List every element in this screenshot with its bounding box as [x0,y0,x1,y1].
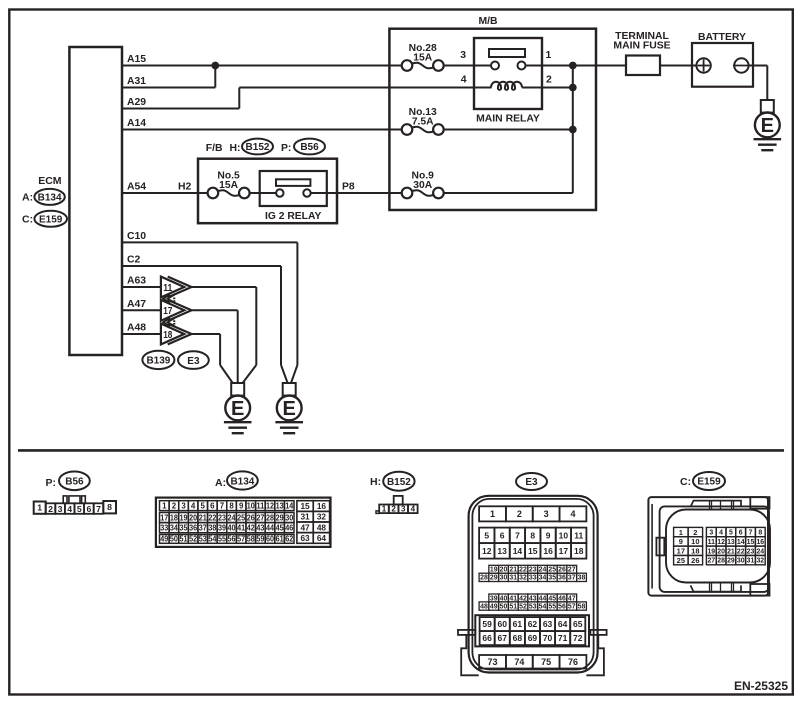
svg-text:2: 2 [391,504,396,513]
svg-text:40: 40 [228,523,237,532]
svg-text:24: 24 [539,567,547,574]
svg-text:72: 72 [573,633,583,643]
svg-text:MAIN FUSE: MAIN FUSE [613,41,670,52]
svg-text:A14: A14 [127,118,146,129]
svg-text:7: 7 [220,501,225,510]
svg-text:51: 51 [509,603,517,610]
svg-text:18: 18 [170,513,179,522]
svg-text:41: 41 [509,595,517,602]
svg-text:28: 28 [480,575,488,582]
svg-text:29: 29 [727,558,735,565]
svg-text:43: 43 [529,595,537,602]
svg-text:26: 26 [691,556,699,565]
svg-text:16: 16 [543,546,553,556]
svg-text:A63: A63 [127,276,146,287]
svg-text:46: 46 [285,523,294,532]
svg-text:22: 22 [208,513,217,522]
svg-text:6: 6 [739,530,743,537]
svg-text:50: 50 [170,535,179,544]
svg-text:C2: C2 [127,255,141,266]
svg-text:8: 8 [758,530,762,537]
svg-text:34: 34 [539,575,547,582]
svg-text:10: 10 [247,501,256,510]
svg-text:14: 14 [285,501,294,510]
svg-text:45: 45 [548,595,556,602]
svg-text:47: 47 [568,595,576,602]
svg-text:3: 3 [58,504,63,514]
svg-text:B152: B152 [387,477,411,488]
svg-text:M/B: M/B [478,16,498,27]
svg-text:31: 31 [747,558,755,565]
svg-text:71: 71 [558,633,568,643]
svg-text:39: 39 [490,595,498,602]
svg-text:59: 59 [256,535,265,544]
svg-text:27: 27 [568,567,576,574]
svg-text:60: 60 [266,535,275,544]
svg-text:E159: E159 [39,215,63,226]
svg-text:A48: A48 [127,323,146,334]
svg-text:21: 21 [727,548,735,555]
svg-text:25: 25 [548,567,556,574]
svg-text:27: 27 [256,513,265,522]
svg-text:4: 4 [411,504,416,513]
svg-text:10: 10 [691,537,699,546]
svg-text:21: 21 [199,513,208,522]
svg-text:42: 42 [247,523,256,532]
svg-text:48: 48 [317,522,327,532]
svg-text:22: 22 [519,567,527,574]
svg-text:55: 55 [218,535,227,544]
svg-text:73: 73 [488,657,498,667]
svg-text:64: 64 [317,533,327,543]
svg-text:25: 25 [237,513,246,522]
svg-text:50: 50 [500,603,508,610]
svg-text:H2: H2 [178,182,192,193]
svg-text:68: 68 [513,633,523,643]
svg-text:20: 20 [500,567,508,574]
svg-text:23: 23 [747,548,755,555]
svg-text:15A: 15A [413,53,432,64]
svg-text:35: 35 [548,575,556,582]
svg-text:C:: C: [680,476,691,488]
svg-text:1: 1 [382,504,387,513]
svg-text:P8: P8 [342,182,355,193]
svg-text:B134: B134 [38,193,62,204]
svg-text:1: 1 [37,503,42,513]
svg-text:42: 42 [519,595,527,602]
svg-text:60: 60 [498,619,508,629]
svg-text:44: 44 [266,523,275,532]
svg-text:C:: C: [22,214,33,226]
svg-text:H:: H: [230,143,241,154]
svg-text:3: 3 [181,501,186,510]
svg-text:26: 26 [247,513,256,522]
svg-text:1: 1 [546,50,552,61]
svg-text:4: 4 [191,501,196,510]
svg-text:69: 69 [528,633,538,643]
svg-text:63: 63 [300,533,310,543]
svg-text:65: 65 [573,619,583,629]
svg-text:11: 11 [574,530,583,540]
svg-text:47: 47 [300,522,310,532]
svg-text:75: 75 [541,657,551,667]
svg-text:74: 74 [514,657,524,667]
svg-text:16: 16 [756,539,764,546]
svg-text:30A: 30A [413,180,432,191]
svg-text:15: 15 [300,501,310,511]
svg-text:48: 48 [480,603,488,610]
svg-text:2: 2 [517,509,522,519]
svg-text:A54: A54 [127,182,146,193]
svg-text:23: 23 [218,513,227,522]
svg-text:17: 17 [677,546,685,555]
svg-text:62: 62 [285,535,294,544]
svg-text:7: 7 [749,530,753,537]
svg-text:4: 4 [461,75,467,86]
svg-text:5: 5 [484,530,489,540]
svg-text:12: 12 [482,546,492,556]
svg-text:39: 39 [218,523,227,532]
svg-text:H:: H: [370,476,381,488]
svg-text:20: 20 [717,548,725,555]
svg-text:27: 27 [707,558,715,565]
svg-text:45: 45 [276,523,285,532]
svg-text:53: 53 [529,603,537,610]
svg-text:ECM: ECM [38,175,62,187]
svg-text:18: 18 [574,546,584,556]
svg-text:56: 56 [558,603,566,610]
svg-text:P:: P: [46,477,57,489]
svg-text:E: E [283,398,296,420]
svg-text:B134: B134 [230,476,254,487]
svg-text:29: 29 [276,513,285,522]
svg-text:13: 13 [497,546,507,556]
svg-text:5: 5 [77,504,82,514]
svg-text:B152: B152 [246,142,270,153]
svg-text:37: 37 [199,523,208,532]
svg-text:36: 36 [189,523,198,532]
svg-text:3: 3 [401,504,406,513]
svg-text:13: 13 [276,501,285,510]
svg-text:A47: A47 [127,299,146,310]
svg-text:66: 66 [482,633,492,643]
svg-text:2: 2 [48,504,53,514]
svg-text:5: 5 [729,530,733,537]
svg-text:57: 57 [568,603,576,610]
svg-text:15A: 15A [219,180,238,191]
svg-text:24: 24 [228,513,237,522]
svg-text:37: 37 [568,575,576,582]
svg-text:12: 12 [717,539,725,546]
svg-text:33: 33 [160,523,169,532]
svg-text:A29: A29 [127,97,146,108]
svg-text:25: 25 [677,556,685,565]
svg-text:4: 4 [570,509,575,519]
svg-text:24: 24 [756,548,764,555]
svg-text:58: 58 [578,603,586,610]
svg-text:58: 58 [247,535,256,544]
svg-text:26: 26 [558,567,566,574]
svg-text:A:: A: [215,477,226,489]
svg-text:6: 6 [210,501,215,510]
svg-text:49: 49 [490,603,498,610]
svg-text:54: 54 [208,535,217,544]
svg-text:70: 70 [543,633,553,643]
svg-text:32: 32 [756,558,764,565]
svg-text:51: 51 [180,535,189,544]
svg-text:62: 62 [528,619,538,629]
svg-text:1: 1 [490,509,495,519]
svg-text:6: 6 [500,530,505,540]
svg-text:9: 9 [546,530,551,540]
svg-text:B139: B139 [146,356,170,367]
svg-text:56: 56 [228,535,237,544]
svg-text:3: 3 [709,530,713,537]
svg-text:2: 2 [546,75,552,86]
svg-text:5: 5 [201,501,206,510]
svg-text:17: 17 [559,546,569,556]
svg-text:32: 32 [317,512,327,522]
svg-text:BATTERY: BATTERY [698,32,746,43]
svg-text:31: 31 [300,512,310,522]
svg-text:20: 20 [189,513,198,522]
svg-text:E3: E3 [525,477,538,488]
svg-text:10: 10 [559,530,569,540]
svg-text:38: 38 [208,523,217,532]
svg-text:11: 11 [256,501,265,510]
svg-text:4: 4 [719,530,723,537]
svg-text:19: 19 [707,548,715,555]
svg-text:A:: A: [22,192,33,204]
svg-text:14: 14 [737,539,745,546]
svg-text:23: 23 [529,567,537,574]
svg-text:11: 11 [708,539,715,546]
svg-text:29: 29 [490,575,498,582]
svg-text:30: 30 [285,513,294,522]
svg-text:55: 55 [548,603,556,610]
svg-text:22: 22 [737,548,745,555]
svg-text:6: 6 [86,504,91,514]
svg-text:9: 9 [679,537,683,546]
svg-text:15: 15 [528,546,538,556]
svg-text:13: 13 [727,539,735,546]
svg-text:7: 7 [515,530,520,540]
svg-text:57: 57 [237,535,246,544]
svg-text:41: 41 [237,523,246,532]
svg-text:32: 32 [519,575,527,582]
svg-text:C10: C10 [127,231,146,242]
svg-text:8: 8 [530,530,535,540]
svg-text:B56: B56 [300,142,319,153]
svg-text:28: 28 [717,558,725,565]
svg-text:9: 9 [239,501,244,510]
svg-text:16: 16 [317,501,327,511]
svg-text:18: 18 [163,329,172,341]
svg-text:28: 28 [266,513,275,522]
svg-text:A31: A31 [127,76,146,87]
svg-text:F/B: F/B [206,143,223,154]
svg-text:2: 2 [693,528,697,537]
svg-text:59: 59 [482,619,492,629]
svg-text:MAIN RELAY: MAIN RELAY [476,114,540,125]
svg-text:A15: A15 [127,54,146,65]
svg-text:IG 2 RELAY: IG 2 RELAY [265,211,321,222]
svg-text:35: 35 [180,523,189,532]
svg-text:40: 40 [500,595,508,602]
svg-text:52: 52 [189,535,198,544]
svg-text:31: 31 [509,575,517,582]
svg-text:52: 52 [519,603,527,610]
svg-text:38: 38 [578,575,586,582]
svg-text:19: 19 [180,513,189,522]
svg-text:63: 63 [543,619,553,629]
svg-text:P:: P: [281,143,291,154]
svg-text:18: 18 [691,546,699,555]
svg-text:E159: E159 [697,477,721,488]
svg-text:2: 2 [172,501,177,510]
svg-text:1: 1 [679,528,683,537]
svg-text:8: 8 [107,502,112,512]
svg-text:8: 8 [229,501,234,510]
svg-text:12: 12 [266,501,275,510]
svg-text:17: 17 [160,513,169,522]
svg-text:30: 30 [500,575,508,582]
svg-text:E: E [231,398,244,420]
svg-text:43: 43 [256,523,265,532]
svg-text:14: 14 [513,546,523,556]
svg-text:54: 54 [539,603,547,610]
svg-text:E3: E3 [187,356,200,367]
svg-text:7.5A: 7.5A [412,117,434,128]
svg-text:33: 33 [529,575,537,582]
svg-text:44: 44 [539,595,547,602]
svg-text:3: 3 [544,509,549,519]
svg-text:21: 21 [509,567,517,574]
svg-text:67: 67 [498,633,508,643]
svg-text:E: E [761,115,774,137]
svg-text:49: 49 [160,535,169,544]
svg-text:64: 64 [558,619,568,629]
svg-text:76: 76 [568,657,578,667]
svg-text:46: 46 [558,595,566,602]
svg-text:61: 61 [513,619,523,629]
svg-text:3: 3 [460,50,466,61]
svg-text:11: 11 [163,282,172,294]
svg-text:61: 61 [276,535,285,544]
svg-text:7: 7 [96,504,101,514]
svg-text:19: 19 [490,567,498,574]
svg-text:53: 53 [199,535,208,544]
svg-text:B56: B56 [65,477,84,488]
svg-text:15: 15 [747,539,755,546]
svg-text:34: 34 [170,523,179,532]
svg-text:36: 36 [558,575,566,582]
svg-text:17: 17 [163,305,172,317]
svg-text:EN-25325: EN-25325 [734,679,788,693]
svg-text:1: 1 [162,501,167,510]
svg-text:30: 30 [737,558,745,565]
svg-text:4: 4 [67,504,72,514]
